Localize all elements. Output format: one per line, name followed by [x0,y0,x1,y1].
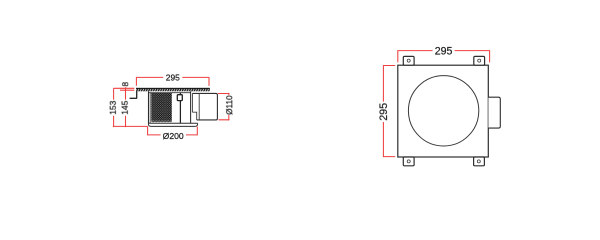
svg-text:295: 295 [378,103,390,121]
left mounting bracket (L hook under flange) [130,91,137,98]
dim 295 (left, front view) [378,66,395,157]
dim 295 (top, front view) [398,45,490,62]
svg-text:295: 295 [166,72,180,82]
outlet spigot (side view) [192,93,217,120]
dim 295 (top, left view) [136,72,209,86]
svg-text:Ø110: Ø110 [225,95,234,115]
dim 145 (left) [120,87,130,126]
mounting tab bottom-right [474,157,485,166]
outlet step [192,112,196,120]
svg-text:Ø200: Ø200 [163,131,184,141]
body right wall [190,91,192,123]
mounting flange plate (hatched section) [136,88,210,91]
casing box [398,65,489,157]
inner right wall line [191,93,193,112]
mounting tab top-left [403,56,414,65]
svg-text:8: 8 [120,82,130,87]
mounting tab top-right [474,56,485,65]
body top edge [149,92,191,94]
internal divider line [179,93,181,124]
svg-text:145: 145 [120,100,130,114]
dim 8 extension lines (flange thickness) [114,88,135,90]
bottom tray (rounded base) [148,123,197,126]
motor/filter block (cross-hatched) [151,93,172,122]
spigot left edge [198,93,200,120]
arrow ticks (red diamonds) [113,87,127,127]
svg-text:295: 295 [435,45,453,57]
dim Ø110 (right of spigot) [218,93,234,121]
dim Ø200 (bottom) [148,126,198,141]
bottom extension line (153/145) [114,125,148,127]
outlet spigot (front view) [488,97,500,128]
mounting tab bottom-left [403,157,414,166]
junction box on divider [177,95,182,101]
body left wall (double line) [148,91,150,123]
svg-text:153: 153 [108,100,118,114]
dim 153 (left) [108,88,118,126]
inlet circle [408,76,478,146]
